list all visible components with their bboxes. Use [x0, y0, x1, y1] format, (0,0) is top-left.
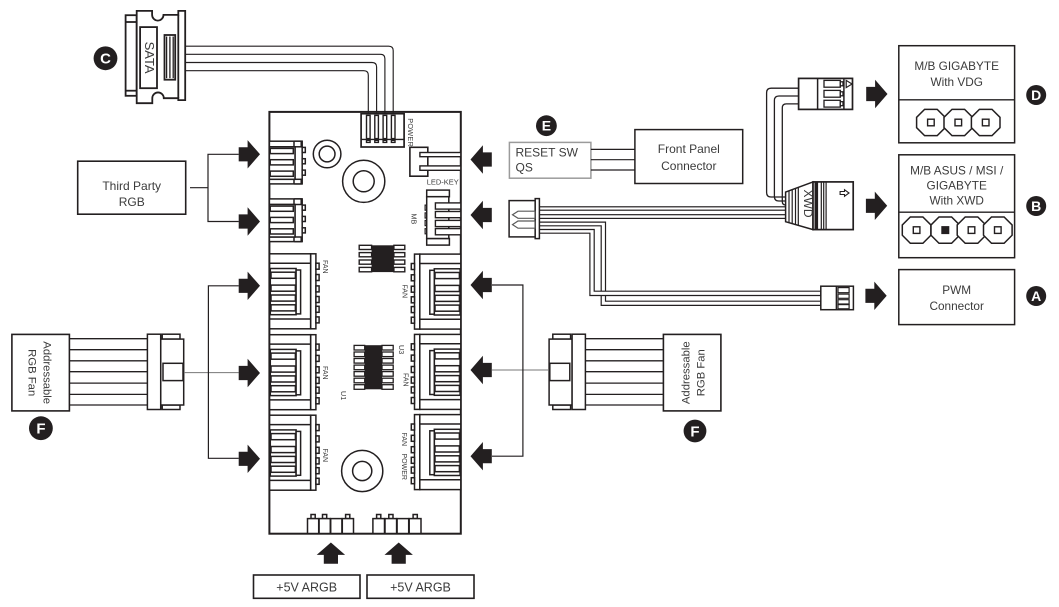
svg-text:POWER: POWER [406, 118, 415, 147]
svg-text:FAN: FAN [400, 433, 407, 447]
svg-text:RESET SW: RESET SW [516, 146, 579, 160]
svg-text:XWD: XWD [801, 190, 815, 218]
svg-text:POWER: POWER [400, 454, 407, 480]
svg-text:With XWD: With XWD [929, 194, 983, 208]
svg-text:QS: QS [516, 161, 533, 175]
svg-text:LED-KEY: LED-KEY [427, 177, 459, 186]
svg-text:M/B ASUS / MSI /: M/B ASUS / MSI / [910, 164, 1004, 178]
svg-text:D: D [1031, 87, 1041, 103]
svg-text:A: A [1031, 288, 1041, 304]
svg-text:Third Party: Third Party [102, 179, 161, 193]
svg-text:FAN: FAN [321, 449, 328, 463]
svg-text:SATA: SATA [142, 42, 157, 74]
svg-text:FAN: FAN [321, 260, 328, 274]
svg-text:F: F [36, 421, 45, 438]
svg-text:FAN: FAN [402, 373, 409, 387]
svg-text:B: B [1031, 198, 1041, 214]
svg-text:+5V ARGB: +5V ARGB [276, 581, 337, 595]
svg-text:Front Panel: Front Panel [658, 142, 720, 156]
svg-text:With VDG: With VDG [930, 75, 982, 89]
svg-text:E: E [542, 118, 551, 134]
svg-text:U3: U3 [397, 345, 406, 354]
svg-text:U1: U1 [339, 391, 348, 400]
svg-text:MB: MB [410, 214, 419, 225]
svg-text:FAN: FAN [321, 366, 328, 380]
svg-text:RGB: RGB [119, 195, 145, 209]
svg-text:FAN: FAN [401, 285, 408, 299]
svg-text:Connector: Connector [661, 159, 716, 173]
svg-text:Connector: Connector [929, 299, 983, 313]
svg-text:PWM: PWM [942, 283, 971, 297]
svg-text:GIGABYTE: GIGABYTE [927, 179, 987, 193]
svg-text:M/B GIGABYTE: M/B GIGABYTE [914, 59, 999, 73]
svg-text:C: C [100, 51, 111, 68]
svg-text:+5V ARGB: +5V ARGB [390, 581, 451, 595]
svg-text:F: F [690, 423, 699, 440]
